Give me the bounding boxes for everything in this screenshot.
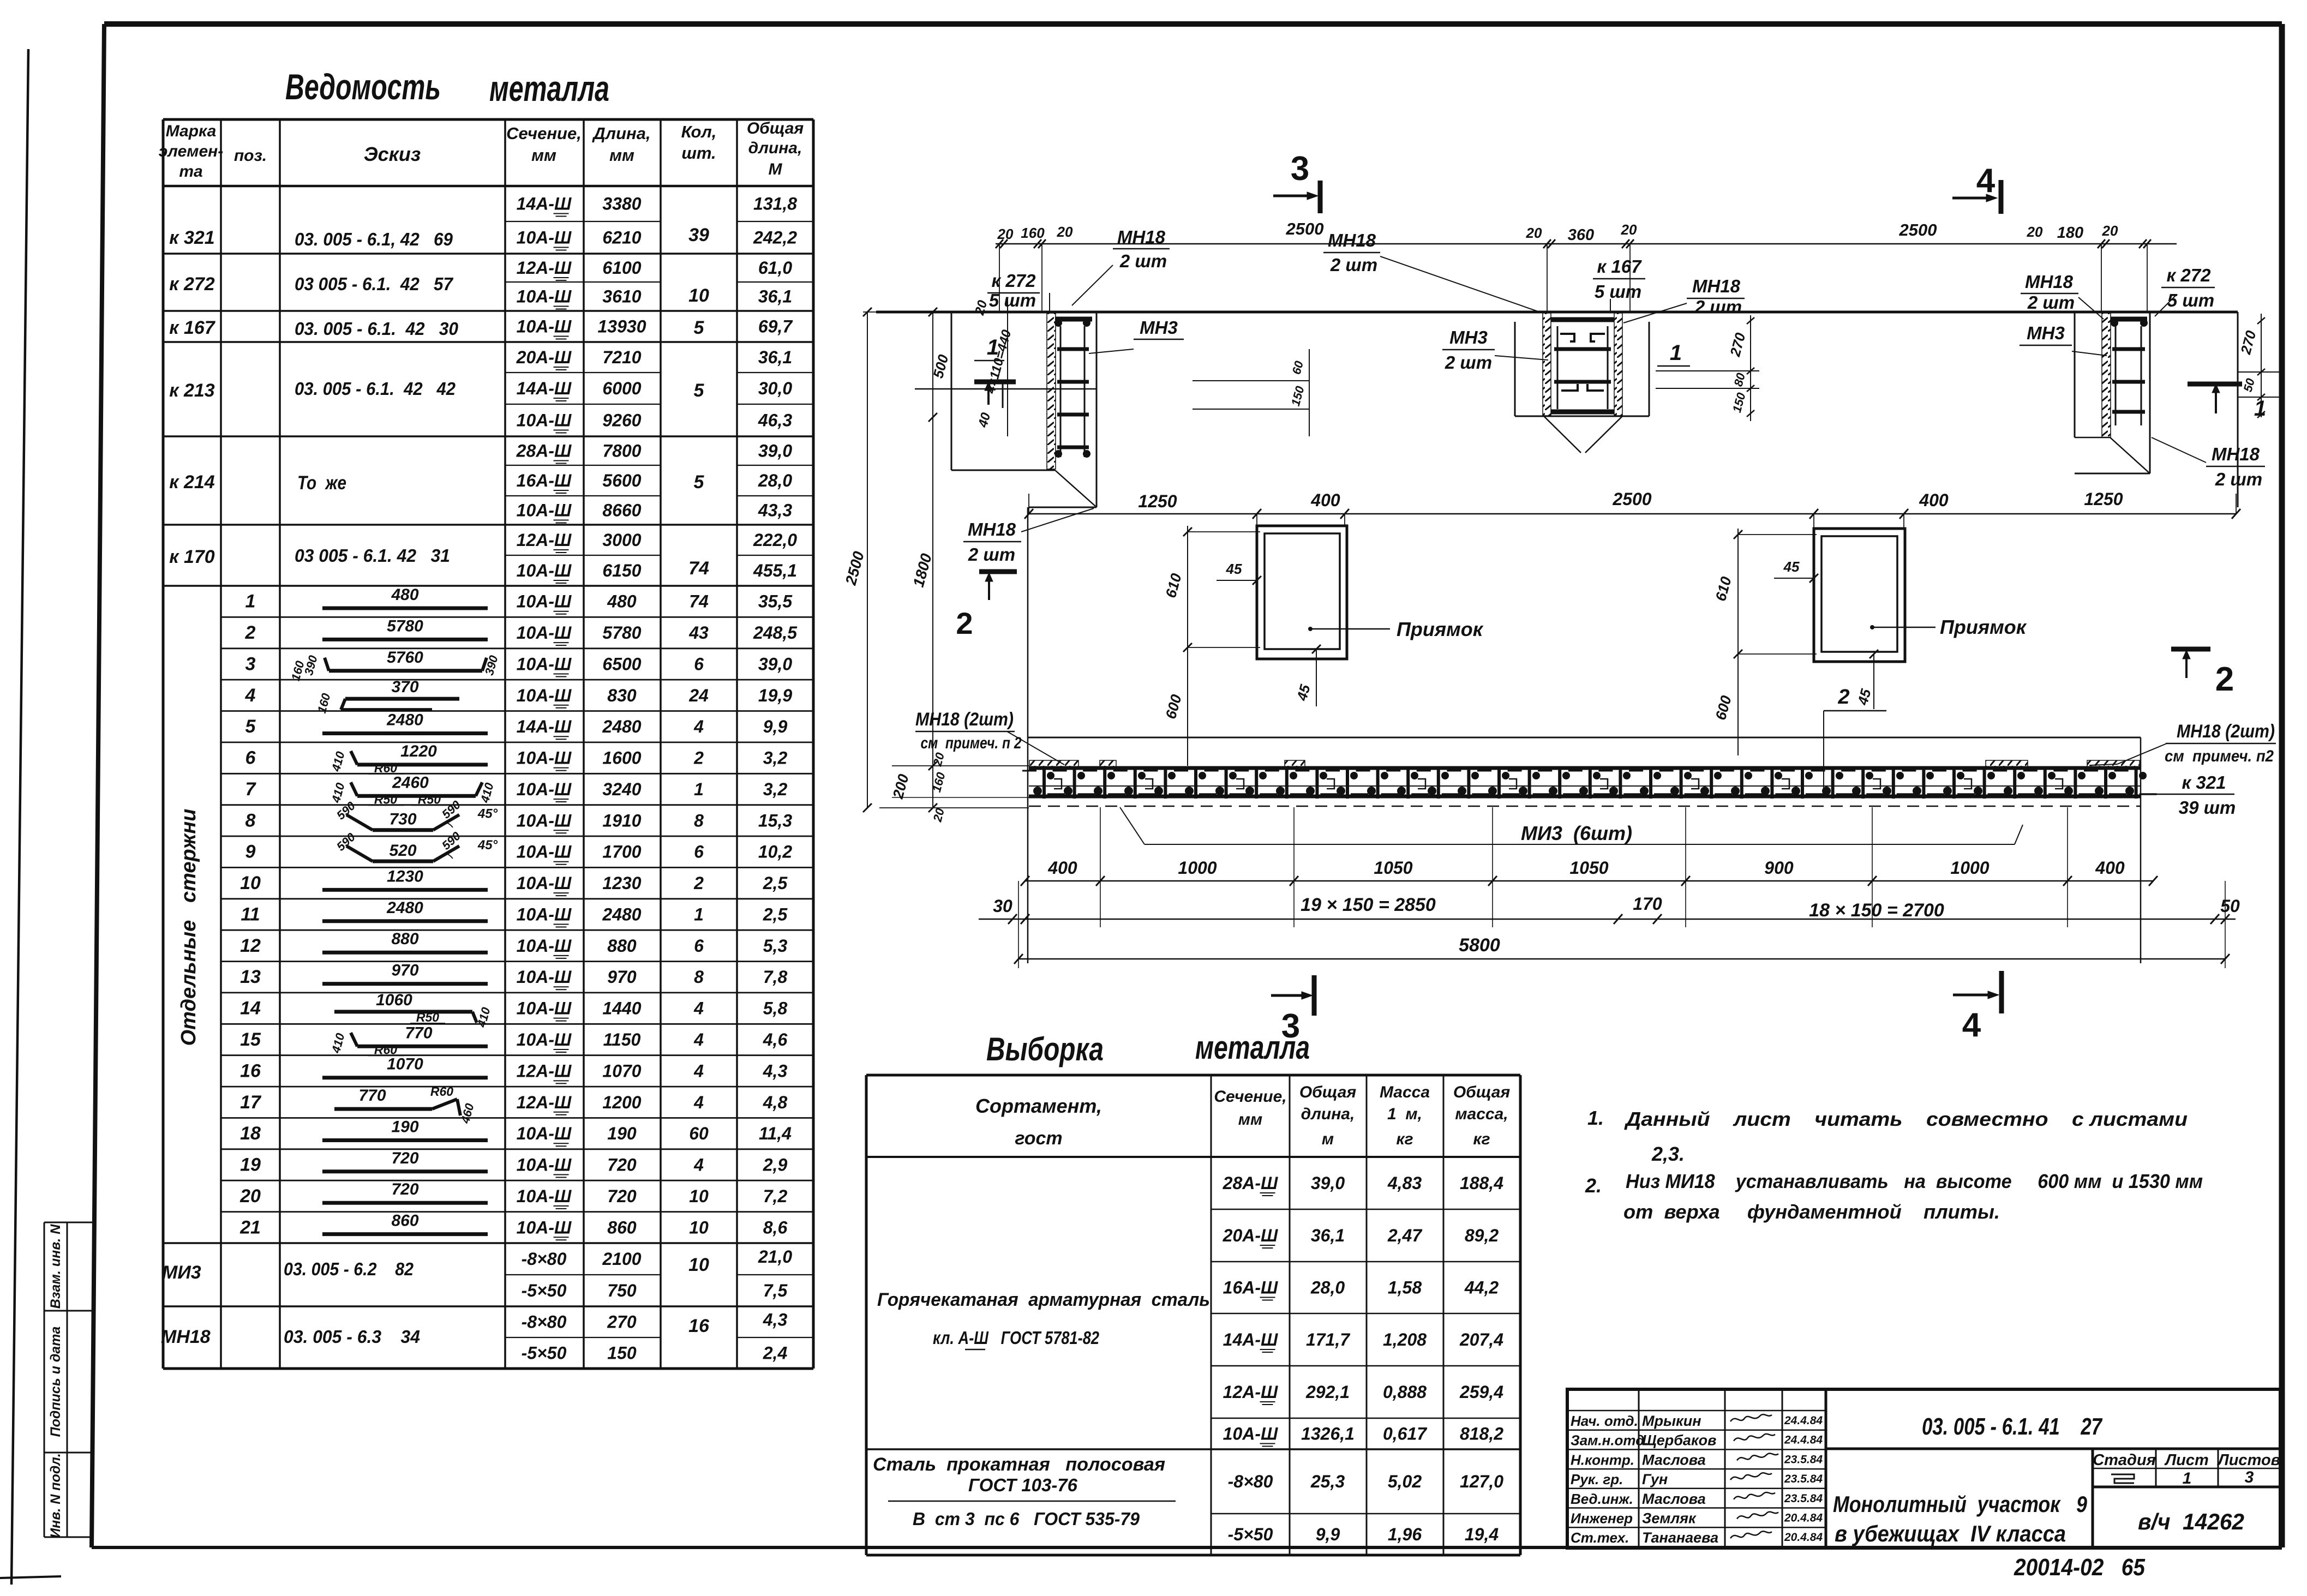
svg-text:1250: 1250: [2084, 489, 2123, 509]
svg-text:74: 74: [689, 592, 709, 611]
svg-text:3,2: 3,2: [763, 779, 788, 799]
svg-text:2500: 2500: [1899, 220, 1937, 239]
svg-text:элемен-: элемен-: [159, 142, 224, 160]
svg-text:190: 190: [391, 1118, 418, 1136]
svg-text:12А-Ш: 12А-Ш: [517, 1093, 572, 1112]
svg-text:03. 005 - 6.3 34: 03. 005 - 6.3 34: [284, 1327, 420, 1347]
svg-text:20А-Ш: 20А-Ш: [516, 347, 572, 367]
svg-text:6100: 6100: [602, 258, 641, 278]
vyborka grid: [865, 1075, 868, 1555]
svg-text:24.4.84: 24.4.84: [1784, 1434, 1823, 1447]
svg-text:5780: 5780: [602, 623, 641, 643]
svg-text:5 шт: 5 шт: [989, 290, 1036, 310]
pit right dim 45 horizontal: [1774, 578, 1814, 579]
svg-text:50: 50: [2220, 896, 2240, 916]
svg-text:шт.: шт.: [681, 143, 716, 163]
dim row 1250-400-2500-400-1250: [1029, 513, 2236, 515]
svg-text:длина,: длина,: [1301, 1105, 1355, 1123]
svg-text:20.4.84: 20.4.84: [1784, 1531, 1823, 1544]
svg-text:10А-Ш: 10А-Ш: [517, 501, 572, 520]
svg-text:МИ3: МИ3: [162, 1262, 201, 1283]
svg-text:мм: мм: [609, 146, 634, 165]
svg-text:19,9: 19,9: [758, 686, 792, 705]
svg-text:МН18: МН18: [2025, 272, 2074, 292]
svg-text:в убежищах IV класса: в убежищах IV класса: [1835, 1521, 2066, 1546]
svg-text:16: 16: [688, 1316, 710, 1336]
vedomost grid horizontal full lines: [163, 118, 813, 121]
svg-text:10А-Ш: 10А-Ш: [517, 779, 572, 799]
sketch поз.4: [345, 697, 459, 701]
svg-text:16А-Ш: 16А-Ш: [1223, 1278, 1278, 1298]
svg-text:61,0: 61,0: [758, 258, 792, 278]
svg-text:9,9: 9,9: [1316, 1525, 1340, 1544]
svg-text:Общая: Общая: [747, 119, 804, 137]
dim row extensions: [1256, 514, 1257, 526]
svg-text:2,5: 2,5: [763, 873, 788, 893]
svg-text:30: 30: [993, 896, 1012, 916]
svg-text:2,47: 2,47: [1387, 1226, 1423, 1245]
svg-text:1440: 1440: [602, 999, 641, 1018]
svg-text:4: 4: [693, 1061, 704, 1081]
svg-text:23.5.84: 23.5.84: [1784, 1453, 1823, 1466]
svg-text:28,0: 28,0: [758, 471, 792, 490]
svg-text:14А-Ш: 14А-Ш: [517, 194, 572, 214]
svg-text:см примеч. п 2: см примеч. п 2: [921, 734, 1022, 752]
svg-text:11: 11: [241, 904, 260, 925]
svg-text:2,9: 2,9: [763, 1155, 788, 1175]
svg-text:-8×80: -8×80: [522, 1312, 567, 1332]
svg-text:к 170: к 170: [169, 547, 214, 567]
svg-text:1230: 1230: [387, 867, 423, 885]
svg-text:20: 20: [1057, 224, 1073, 240]
svg-text:1050: 1050: [1569, 858, 1608, 878]
svg-text:400: 400: [2095, 858, 2125, 878]
svg-text:6150: 6150: [602, 561, 641, 580]
svg-text:0,888: 0,888: [1383, 1382, 1427, 1402]
slab interior line: [1028, 737, 2141, 739]
svg-text:2: 2: [245, 622, 256, 643]
svg-text:222,0: 222,0: [753, 530, 797, 550]
svg-text:2 шт: 2 шт: [1694, 297, 1742, 317]
svg-text:1000: 1000: [1178, 858, 1217, 878]
strip top line: [1029, 766, 2141, 770]
svg-text:25,3: 25,3: [1310, 1472, 1345, 1491]
svg-text:720: 720: [391, 1180, 418, 1198]
svg-text:Маслова: Маслова: [1642, 1491, 1706, 1507]
svg-text:15,3: 15,3: [758, 811, 792, 830]
svg-text:1: 1: [987, 335, 999, 359]
svg-text:20: 20: [1526, 225, 1542, 241]
svg-text:1.: 1.: [1587, 1107, 1604, 1129]
wall line left extension: [863, 311, 876, 313]
svg-text:к 167: к 167: [1597, 256, 1643, 277]
sketch поз.2: [322, 638, 488, 641]
svg-text:8,6: 8,6: [763, 1217, 788, 1237]
svg-text:4,3: 4,3: [763, 1061, 788, 1081]
svg-text:гост: гост: [1015, 1128, 1062, 1149]
svg-text:10А-Ш: 10А-Ш: [517, 967, 572, 987]
dim chain 400-1000-1050-1050-900-1000-400: [1025, 880, 2153, 882]
svg-text:20: 20: [1621, 221, 1637, 238]
svg-text:28,0: 28,0: [1310, 1278, 1345, 1298]
svg-text:4: 4: [693, 999, 704, 1018]
svg-text:Нач. отд.: Нач. отд.: [1571, 1413, 1638, 1429]
svg-text:2500: 2500: [1286, 219, 1324, 238]
svg-text:20: 20: [2027, 224, 2043, 240]
svg-text:1: 1: [2183, 1469, 2192, 1487]
svg-text:R60: R60: [374, 1042, 397, 1057]
svg-text:Эскиз: Эскиз: [364, 143, 421, 165]
svg-text:МН3: МН3: [2027, 323, 2065, 343]
svg-text:кг: кг: [1396, 1130, 1413, 1148]
left column box: [951, 312, 952, 470]
svg-text:36,1: 36,1: [758, 347, 792, 367]
svg-text:3: 3: [1291, 150, 1309, 188]
right edge dims 270-50: [2238, 371, 2280, 373]
svg-text:10А-Ш: 10А-Ш: [517, 317, 572, 337]
svg-text:Тананаева: Тананаева: [1642, 1529, 1718, 1546]
stage mark: [2111, 1474, 2134, 1483]
svg-text:6500: 6500: [602, 655, 641, 674]
svg-text:Ведомость: Ведомость: [285, 67, 441, 107]
svg-text:2460: 2460: [392, 773, 429, 791]
svg-text:Зам.н.отд.: Зам.н.отд.: [1571, 1432, 1649, 1449]
section mark 3 bottom: [1312, 975, 1317, 1016]
svg-text:R60: R60: [430, 1084, 453, 1099]
svg-text:10А-Ш: 10А-Ш: [517, 905, 572, 925]
svg-text:10А-Ш: 10А-Ш: [517, 811, 572, 830]
left column hatched wall strip: [1047, 313, 1056, 469]
pit left dims: [1187, 526, 1188, 766]
svg-text:Кол,: Кол,: [681, 122, 717, 141]
svg-text:400: 400: [1919, 490, 1949, 510]
svg-text:Ст.тех.: Ст.тех.: [1571, 1529, 1629, 1546]
svg-text:металла: металла: [1195, 1029, 1310, 1066]
title block outer: [1567, 1389, 2280, 1548]
svg-text:2480: 2480: [602, 717, 641, 736]
svg-text:720: 720: [391, 1149, 418, 1167]
svg-text:18: 18: [240, 1123, 261, 1144]
strip mid line: [1029, 785, 2141, 787]
svg-text:9: 9: [245, 842, 256, 862]
svg-text:см примеч. п2: см примеч. п2: [2165, 747, 2274, 765]
svg-text:Лист: Лист: [2164, 1451, 2209, 1469]
svg-text:Маслова: Маслова: [1642, 1451, 1706, 1468]
svg-text:Длина,: Длина,: [591, 124, 650, 143]
svg-text:7: 7: [245, 779, 257, 800]
sheet outer scan edge line: [11, 49, 28, 1585]
svg-text:2480: 2480: [386, 711, 423, 729]
svg-text:к 214: к 214: [169, 472, 214, 493]
svg-text:10А-Ш: 10А-Ш: [517, 1124, 572, 1143]
svg-text:8660: 8660: [602, 501, 641, 520]
svg-text:1600: 1600: [602, 748, 641, 768]
frame border: [92, 24, 104, 1547]
svg-text:10А-Ш: 10А-Ш: [517, 1030, 572, 1049]
svg-text:3610: 3610: [602, 287, 641, 307]
svg-text:970: 970: [607, 967, 637, 987]
sketch поз.12: [322, 951, 488, 955]
sketch поз.21: [322, 1232, 488, 1236]
svg-text:В ст 3 пс 6 ГОСТ 535-79: В ст 3 пс 6 ГОСТ 535-79: [913, 1509, 1140, 1529]
strip dashed line: [1029, 806, 2141, 807]
svg-text:2,3.: 2,3.: [1651, 1143, 1685, 1165]
svg-text:Земляк: Земляк: [1642, 1510, 1697, 1527]
svg-text:Горячекатаная арматурная ста: Горячекатаная арматурная сталь: [877, 1289, 1210, 1310]
svg-text:39,0: 39,0: [1311, 1173, 1345, 1193]
svg-text:4: 4: [693, 1030, 704, 1049]
svg-text:5 шт: 5 шт: [1595, 281, 1641, 302]
title block horizontals: [1567, 1410, 1826, 1412]
svg-text:10А-Ш: 10А-Ш: [517, 623, 572, 643]
pit left dim 45 horizontal: [1217, 580, 1257, 581]
svg-text:69,7: 69,7: [758, 317, 793, 337]
svg-text:770: 770: [358, 1087, 386, 1105]
svg-text:74: 74: [688, 558, 709, 579]
svg-text:6210: 6210: [602, 228, 641, 248]
svg-text:880: 880: [607, 936, 637, 956]
svg-text:13: 13: [240, 967, 261, 987]
svg-text:Сортамент,: Сортамент,: [975, 1095, 1102, 1117]
svg-text:м: м: [1322, 1130, 1334, 1148]
section mark 4 bottom: [1999, 971, 2004, 1013]
svg-text:5760: 5760: [387, 649, 423, 667]
svg-text:880: 880: [391, 930, 418, 948]
svg-text:10А-Ш: 10А-Ш: [517, 561, 572, 580]
svg-text:4,8: 4,8: [763, 1093, 788, 1112]
svg-text:Инженер: Инженер: [1571, 1510, 1633, 1527]
svg-text:1: 1: [694, 905, 704, 925]
svg-text:1070: 1070: [602, 1061, 641, 1081]
svg-text:2: 2: [1837, 686, 1849, 709]
svg-text:10А-Ш: 10А-Ш: [517, 1217, 572, 1237]
svg-text:2: 2: [956, 606, 973, 640]
svg-text:16А-Ш: 16А-Ш: [517, 471, 572, 490]
svg-text:к 213: к 213: [169, 380, 214, 401]
svg-text:3: 3: [2245, 1468, 2254, 1486]
svg-text:Масса: Масса: [1380, 1083, 1430, 1101]
svg-text:8: 8: [245, 810, 256, 831]
svg-text:46,3: 46,3: [758, 411, 792, 430]
svg-text:5: 5: [694, 472, 705, 493]
svg-text:4,6: 4,6: [763, 1030, 788, 1049]
svg-text:2500: 2500: [1612, 489, 1651, 509]
sketch поз.1: [322, 607, 488, 610]
pit left (Приямок): [1257, 526, 1347, 659]
wall top line: [876, 311, 2238, 314]
svg-text:2.: 2.: [1585, 1174, 1602, 1197]
svg-text:1050: 1050: [1374, 858, 1412, 878]
svg-text:6: 6: [694, 655, 704, 674]
svg-text:9260: 9260: [602, 411, 641, 430]
svg-text:Отдельные стержни: Отдельные стержни: [177, 809, 200, 1046]
svg-text:39,0: 39,0: [758, 655, 792, 674]
svg-text:2,4: 2,4: [763, 1343, 788, 1363]
svg-text:10А-Ш: 10А-Ш: [517, 1186, 572, 1206]
svg-text:поз.: поз.: [234, 147, 267, 165]
svg-text:1200: 1200: [602, 1093, 641, 1112]
svg-text:7,2: 7,2: [763, 1186, 788, 1206]
svg-text:1070: 1070: [387, 1055, 423, 1073]
svg-text:10А-Ш: 10А-Ш: [517, 748, 572, 768]
svg-text:370: 370: [391, 678, 418, 696]
svg-text:Низ МИ18 устанавливать на: Низ МИ18 устанавливать на высоте 600 мм …: [1626, 1170, 2203, 1192]
svg-text:19: 19: [240, 1155, 261, 1175]
svg-text:150: 150: [607, 1343, 637, 1363]
svg-text:4: 4: [693, 1155, 704, 1175]
svg-text:10А-Ш: 10А-Ш: [517, 287, 572, 307]
svg-text:9,9: 9,9: [763, 717, 788, 736]
svg-text:3,2: 3,2: [763, 748, 788, 768]
svg-text:127,0: 127,0: [1460, 1472, 1503, 1491]
svg-text:Мрыкин: Мрыкин: [1642, 1413, 1701, 1429]
sketch поз.13: [322, 982, 488, 986]
svg-text:5: 5: [245, 716, 256, 737]
svg-text:кг: кг: [1473, 1130, 1490, 1148]
left overall vertical dims 2500 1800: [867, 312, 868, 808]
svg-text:10А-Ш: 10А-Ш: [517, 842, 572, 862]
svg-text:17: 17: [240, 1092, 262, 1113]
sketch поз.7: [357, 794, 476, 798]
svg-text:2100: 2100: [602, 1249, 641, 1269]
svg-text:10,2: 10,2: [758, 842, 792, 862]
svg-text:1 м,: 1 м,: [1387, 1105, 1422, 1123]
svg-text:12А-Ш: 12А-Ш: [517, 530, 572, 550]
svg-text:720: 720: [607, 1186, 637, 1206]
svg-text:10А-Ш: 10А-Ш: [517, 999, 572, 1018]
sketch поз.11: [322, 919, 488, 923]
pit right dims: [1737, 529, 1739, 755]
svg-text:8: 8: [694, 811, 704, 830]
middle column reinforcement bars: [1551, 317, 1614, 322]
svg-text:2 шт: 2 шт: [2027, 292, 2075, 313]
svg-text:207,4: 207,4: [1459, 1330, 1503, 1349]
svg-text:4,3: 4,3: [763, 1310, 788, 1330]
svg-text:7800: 7800: [602, 441, 641, 461]
svg-text:24: 24: [688, 686, 709, 705]
svg-text:39 шт: 39 шт: [2179, 797, 2236, 818]
svg-text:39,0: 39,0: [758, 441, 792, 461]
svg-text:М: М: [769, 160, 783, 178]
strip stirrups: [1042, 767, 1046, 799]
svg-text:10А-Ш: 10А-Ш: [1223, 1424, 1278, 1444]
svg-text:2480: 2480: [602, 905, 641, 925]
svg-text:к 167: к 167: [169, 317, 215, 338]
svg-text:Рук. гр.: Рук. гр.: [1571, 1471, 1623, 1487]
svg-text:3380: 3380: [602, 194, 641, 214]
svg-text:45: 45: [1783, 559, 1800, 575]
vedomost pos-row divider lines: [221, 616, 813, 618]
dim chain 30 19x150 170 18x150 50: [979, 919, 2236, 920]
section mark 1 right: [2188, 382, 2242, 387]
svg-text:43,3: 43,3: [758, 501, 792, 520]
svg-text:03 005 - 6.1. 42 31: 03 005 - 6.1. 42 31: [295, 545, 450, 566]
svg-text:28А-Ш: 28А-Ш: [516, 441, 572, 461]
svg-text:900: 900: [1764, 858, 1794, 878]
svg-text:6: 6: [694, 936, 704, 956]
svg-text:1060: 1060: [376, 991, 412, 1009]
svg-text:2 шт: 2 шт: [1445, 352, 1492, 373]
svg-text:1000: 1000: [1950, 858, 1989, 878]
svg-text:14А-Ш: 14А-Ш: [517, 717, 572, 736]
svg-text:1: 1: [1670, 341, 1682, 365]
svg-text:259,4: 259,4: [1459, 1382, 1503, 1402]
svg-text:89,2: 89,2: [1465, 1226, 1499, 1245]
svg-text:770: 770: [405, 1024, 432, 1042]
middle column box: [1514, 322, 1516, 416]
svg-text:5,02: 5,02: [1388, 1472, 1422, 1491]
svg-text:10А-Ш: 10А-Ш: [517, 655, 572, 674]
svg-text:МН18: МН18: [1328, 230, 1376, 250]
svg-text:-5×50: -5×50: [1228, 1525, 1273, 1544]
svg-text:4: 4: [1976, 162, 1996, 200]
svg-text:818,2: 818,2: [1460, 1424, 1503, 1444]
svg-text:720: 720: [607, 1155, 637, 1175]
svg-text:14А-Ш: 14А-Ш: [1223, 1330, 1278, 1349]
svg-text:5600: 5600: [602, 471, 641, 490]
label МИ3 6шт leader: [1120, 807, 1144, 844]
svg-text:2480: 2480: [386, 899, 423, 917]
svg-text:4: 4: [693, 1093, 704, 1112]
svg-text:масса,: масса,: [1455, 1105, 1508, 1123]
svg-text:10: 10: [689, 1186, 709, 1206]
svg-text:20.4.84: 20.4.84: [1784, 1512, 1823, 1525]
svg-text:19 × 150 = 2850: 19 × 150 = 2850: [1301, 895, 1436, 915]
sketch поз.14: [334, 1010, 472, 1013]
strip hatched bands: [1029, 760, 1078, 767]
svg-text:180: 180: [2057, 224, 2083, 242]
svg-text:1: 1: [2254, 397, 2266, 421]
svg-text:5,8: 5,8: [763, 999, 788, 1018]
svg-text:МН18 (2шт): МН18 (2шт): [915, 709, 1014, 730]
svg-text:Вед.инж.: Вед.инж.: [1571, 1491, 1633, 1507]
svg-text:5,3: 5,3: [763, 936, 788, 956]
dim chain extensions: [1100, 807, 1101, 927]
svg-text:7,8: 7,8: [763, 967, 788, 987]
svg-text:Общая: Общая: [1453, 1083, 1511, 1101]
svg-text:36,1: 36,1: [758, 287, 792, 307]
svg-text:5780: 5780: [387, 617, 423, 635]
right column box: [2074, 312, 2076, 437]
svg-text:860: 860: [391, 1212, 418, 1230]
svg-text:Листов: Листов: [2217, 1451, 2280, 1469]
svg-text:20014-02 65: 20014-02 65: [2014, 1554, 2145, 1581]
svg-text:МН18: МН18: [968, 519, 1016, 539]
svg-text:2,5: 2,5: [763, 905, 788, 925]
vedomost sub-row divider lines: [505, 221, 661, 222]
sketch поз.15: [357, 1045, 488, 1048]
svg-text:44,2: 44,2: [1464, 1278, 1499, 1298]
svg-text:18 × 150 = 2700: 18 × 150 = 2700: [1809, 900, 1944, 921]
svg-text:Щербаков: Щербаков: [1642, 1432, 1716, 1449]
left attribute column boxes: [44, 1222, 45, 1537]
svg-text:10: 10: [688, 1255, 709, 1275]
svg-text:10А-Ш: 10А-Ш: [517, 1155, 572, 1175]
svg-text:14: 14: [240, 998, 261, 1019]
svg-text:к 272: к 272: [169, 274, 214, 295]
svg-text:6: 6: [694, 842, 704, 862]
svg-text:12А-Ш: 12А-Ш: [517, 1061, 572, 1081]
svg-text:45°: 45°: [477, 807, 498, 821]
svg-text:Общая: Общая: [1299, 1083, 1357, 1101]
svg-text:Инв. N подл.: Инв. N подл.: [48, 1453, 63, 1538]
right column hatched strip: [2102, 313, 2111, 437]
svg-text:360: 360: [1568, 226, 1594, 244]
svg-text:10А-Ш: 10А-Ш: [517, 873, 572, 893]
svg-text:10А-Ш: 10А-Ш: [517, 936, 572, 956]
svg-text:Выборка: Выборка: [986, 1031, 1104, 1067]
svg-text:970: 970: [391, 962, 418, 980]
